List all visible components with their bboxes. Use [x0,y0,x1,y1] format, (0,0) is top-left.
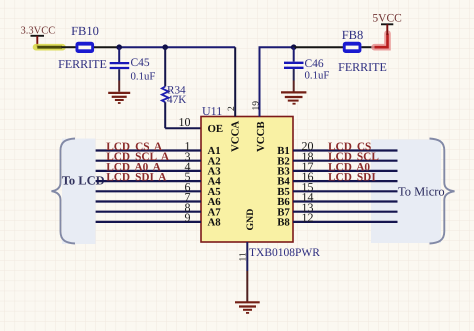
label To Micro [398,185,445,199]
IC U11 TXB0108PWR [201,117,320,259]
pin B8 wire [277,211,397,229]
svg-text:0.1uF: 0.1uF [131,71,156,83]
svg-text:9: 9 [185,211,191,225]
pin B4 wire, net LCD SDI [277,170,397,188]
svg-text:OE: OE [208,123,224,135]
ground (U11 pin 11) [235,302,260,313]
To LCD highlight box [62,139,96,245]
wire to FB10 [62,46,77,48]
svg-text:C45: C45 [131,57,150,69]
wire FB10 to junction [94,46,119,48]
junction C46 [291,44,297,50]
pin B1 wire, net LCD CS [277,139,397,157]
power port 3.3VCC [21,25,56,47]
svg-text:0.1uF: 0.1uF [305,70,330,82]
svg-text:VCCA: VCCA [229,121,241,152]
pin A7 wire [96,200,222,218]
power port 5VCC [372,12,402,35]
wire FB8 to 5VCC [361,46,375,48]
svg-text:VCCB: VCCB [255,121,267,152]
svg-text:FERRITE: FERRITE [58,57,107,71]
wire 3.3VCC highlighted yellow [36,44,63,51]
svg-text:B8: B8 [277,217,290,229]
pin 2 stub (VCCA) [227,47,237,116]
pin 19 stub (VCCB) [251,47,261,116]
ferrite bead FB10 [58,24,107,71]
svg-text:GND: GND [245,209,256,231]
svg-text:11: 11 [238,252,248,261]
svg-text:5VCC: 5VCC [372,12,402,24]
wire 3.3V rail [119,46,235,48]
brace To LCD [52,139,76,244]
pin VCCA name [229,121,241,152]
pin A1 wire, net LCD CS A [96,139,221,157]
svg-text:To Micro: To Micro [398,185,445,199]
svg-text:FB10: FB10 [71,24,99,38]
ground (C45) [108,93,130,103]
resistor R34 [162,47,186,128]
ferrite bead FB8 [338,28,387,74]
capacitor C46 [284,47,329,91]
svg-text:12: 12 [302,211,314,225]
pin B7 wire [277,200,397,218]
wire VCCB rail corner [260,47,294,116]
svg-text:LCD SDI: LCD SDI [328,172,376,184]
svg-text:FB8: FB8 [342,28,364,42]
label To LCD [62,173,105,187]
pin B2 wire, net LCD SCL [277,149,397,167]
junction R34 [162,44,168,50]
svg-text:10: 10 [179,115,191,129]
pin B3 wire, net LCD A0 [277,160,397,178]
svg-text:3.3VCC: 3.3VCC [21,25,56,36]
svg-text:LCD SDI A: LCD SDI A [106,172,167,184]
wire junction to FB8 [294,46,344,48]
pin B6 wire [277,190,397,208]
ground (C46) [281,92,306,103]
pin A8 wire [96,211,222,229]
pin A4 wire, net LCD SDI A [96,170,222,188]
pin A5 wire [96,180,221,198]
svg-text:FERRITE: FERRITE [338,60,387,74]
junction C45 [116,44,122,50]
svg-text:C46: C46 [305,58,324,70]
capacitor C45 [110,47,156,91]
pin A3 wire, net LCD A0 A [96,160,222,178]
svg-text:47K: 47K [167,94,186,106]
pin 11 stub (GND) [238,242,248,302]
designator U11 [202,104,222,118]
pin B5 wire [277,180,397,198]
wire 5VCC highlighted red [375,34,388,48]
To Micro highlight box [371,140,441,244]
pin VCCB name [255,121,267,152]
svg-text:2: 2 [227,106,237,111]
svg-text:TXB0108PWR: TXB0108PWR [249,247,320,259]
pin GND name [245,209,256,231]
pin A6 wire [96,190,222,208]
svg-text:A8: A8 [208,217,222,229]
pin A2 wire, net LCD SCL A [96,149,221,167]
brace To Micro [430,139,455,244]
pin OE name [208,123,224,135]
wire R34 to OE pin 10 [165,115,201,129]
